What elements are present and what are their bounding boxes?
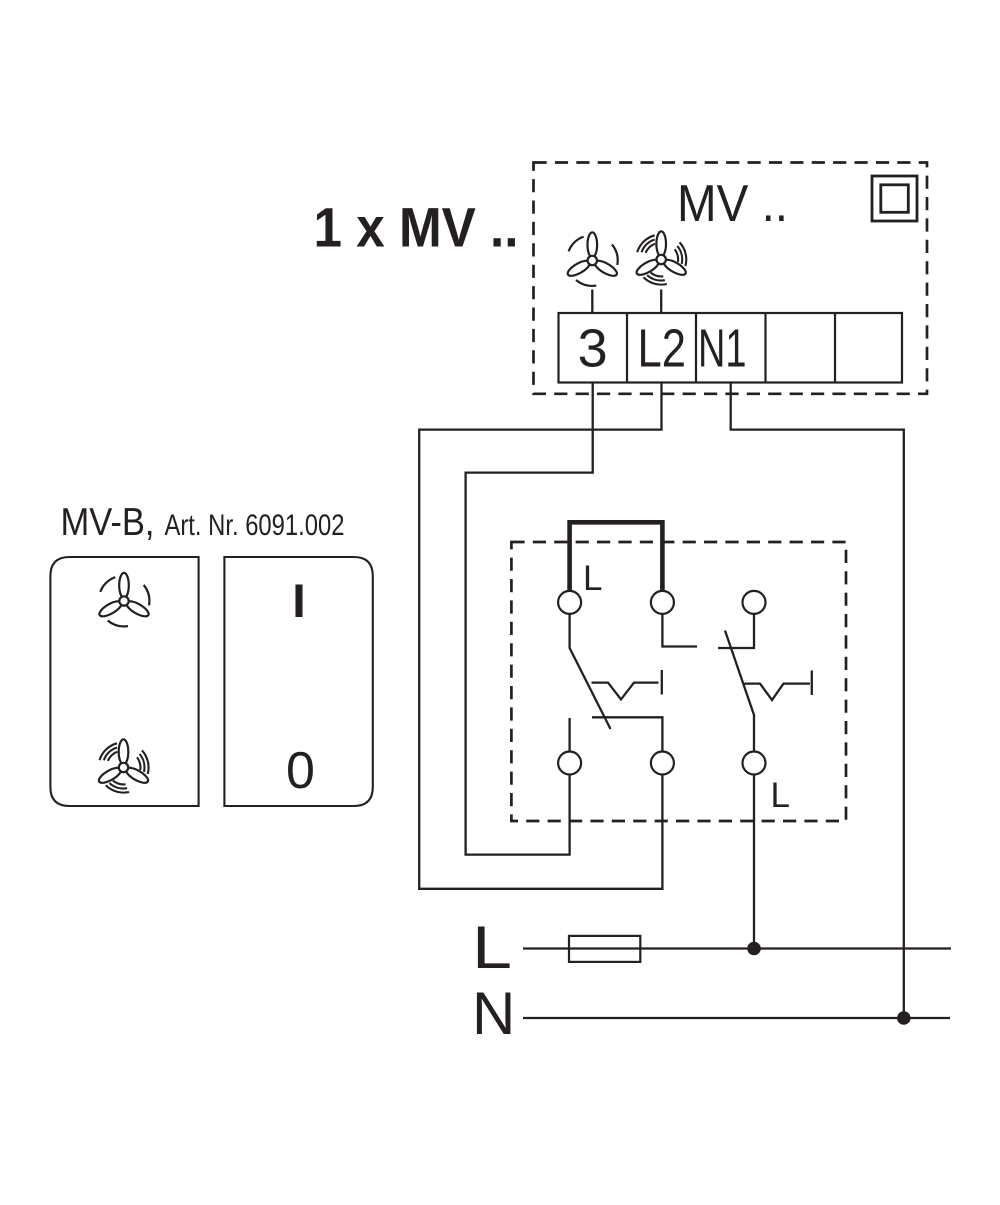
fan motor high speed (top box) xyxy=(634,231,687,284)
switch S1 rocker detent symbol xyxy=(592,670,662,699)
button fan icon high speed xyxy=(97,739,150,792)
label MV .. xyxy=(677,175,788,233)
wire: slow fan to terminal 3 xyxy=(591,290,593,314)
svg-text:1 x MV ..: 1 x MV .. xyxy=(314,196,519,259)
button label I xyxy=(289,574,310,627)
fan unit enclosure MV (dashed box) xyxy=(534,163,928,394)
wire: terminal L2 to S1 bottom-right xyxy=(419,383,662,889)
junction dot: S2 wire on L line xyxy=(747,942,761,956)
svg-text:L: L xyxy=(472,914,512,981)
switch S2 lever xyxy=(725,631,754,752)
L line xyxy=(523,947,951,949)
svg-text:L: L xyxy=(771,776,790,815)
terminal circle S1 top-right xyxy=(651,591,674,614)
switch S2 rocker detent symbol xyxy=(745,671,812,701)
svg-text:L: L xyxy=(583,559,602,598)
switch S1 top-right contact arm xyxy=(662,614,697,647)
node L label (switch S1) xyxy=(583,559,602,598)
wire: S2 bottom to L line xyxy=(753,775,755,949)
terminal block xyxy=(559,313,903,383)
fuse F1 xyxy=(569,936,640,962)
svg-text:0: 0 xyxy=(286,742,315,800)
node L label (switch S2) xyxy=(771,776,790,815)
svg-text:I: I xyxy=(289,574,310,627)
svg-text:L2: L2 xyxy=(638,319,687,379)
button label 0 xyxy=(286,742,315,800)
terminal label 3 xyxy=(578,318,608,378)
caption MV-B, xyxy=(61,501,155,544)
switch S1 lower contact bar xyxy=(592,717,662,751)
bold bridge wire (L feed) over switch S1 xyxy=(570,522,663,591)
svg-text:N1: N1 xyxy=(698,319,747,379)
svg-text:MV ..: MV .. xyxy=(677,175,788,233)
switch S1 bottom-left contact stub xyxy=(568,718,570,752)
svg-text:MV-B,: MV-B, xyxy=(61,501,155,544)
N line xyxy=(523,1017,950,1019)
class II double-insulation symbol xyxy=(872,176,917,221)
terminal circle S1 bottom-right xyxy=(651,752,674,775)
terminal circle S1 bottom-left xyxy=(558,752,581,775)
button fan icon low speed xyxy=(97,573,150,627)
switch S2 top contact arm xyxy=(718,614,754,648)
wire: fast fan to terminal L2 xyxy=(660,290,662,314)
wire: terminal N1 to N line xyxy=(731,383,904,1019)
svg-text:N: N xyxy=(472,980,515,1047)
switch S1 lever xyxy=(570,614,611,729)
caption 1 x MV .. xyxy=(314,196,519,259)
terminal circle S2 top xyxy=(743,591,766,614)
wire: terminal 3 to S1 bottom-left xyxy=(466,383,593,855)
svg-text:Art. Nr. 6091.002: Art. Nr. 6091.002 xyxy=(165,509,345,542)
terminal label N1 xyxy=(698,319,747,379)
terminal label L2 xyxy=(638,319,687,379)
rocker button right half (I / 0) xyxy=(224,557,372,806)
terminal circle S1 top-left xyxy=(558,591,581,614)
mains label L xyxy=(472,914,512,981)
svg-text:3: 3 xyxy=(578,318,608,378)
caption Art. Nr. 6091.002 xyxy=(165,509,345,542)
switch MV-B enclosure (dashed box) xyxy=(511,542,846,821)
fan motor low speed (top box) xyxy=(566,232,619,286)
junction dot: N1 wire on N line xyxy=(897,1011,911,1025)
mains label N xyxy=(472,980,515,1047)
rocker button left half (fan symbols) xyxy=(50,557,198,806)
terminal circle S2 bottom xyxy=(743,752,766,775)
